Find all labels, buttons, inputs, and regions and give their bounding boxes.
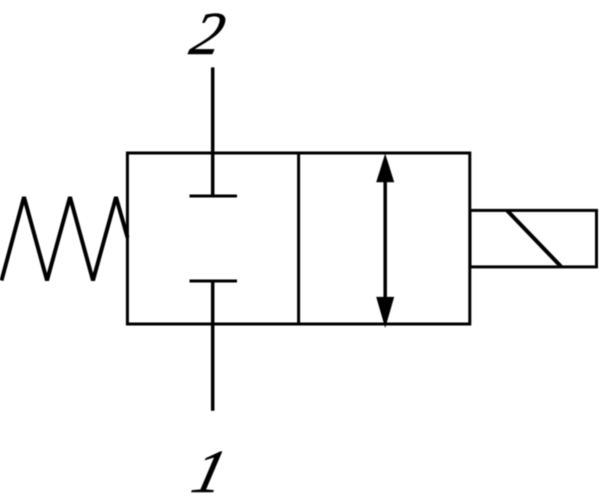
flow double arrow <box>376 154 394 329</box>
return spring <box>2 197 128 281</box>
port 2 blocked T-bar <box>190 195 238 198</box>
solenoid actuator box <box>470 210 597 267</box>
svg-text:1: 1 <box>186 439 233 503</box>
svg-text:2: 2 <box>184 1 231 68</box>
port 1 blocked T-bar <box>190 280 238 283</box>
port 2 stem <box>211 67 215 196</box>
solenoid coil diagonal <box>507 210 561 266</box>
valve body outline <box>127 153 469 324</box>
position divider line <box>297 153 300 324</box>
port 1 stem <box>211 281 215 411</box>
